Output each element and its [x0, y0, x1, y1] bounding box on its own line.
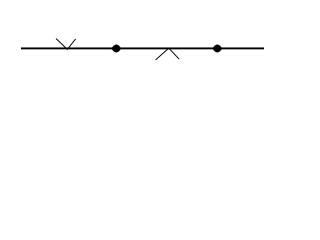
junction dot J1 — [111, 44, 121, 52]
junction dot J2 — [212, 44, 222, 52]
chevron mark V2 (apex up, below wire) — [156, 48, 180, 60]
chevron mark V1 (apex down, on wire) — [56, 39, 76, 50]
wire W1 (horizontal line) — [21, 47, 264, 49]
